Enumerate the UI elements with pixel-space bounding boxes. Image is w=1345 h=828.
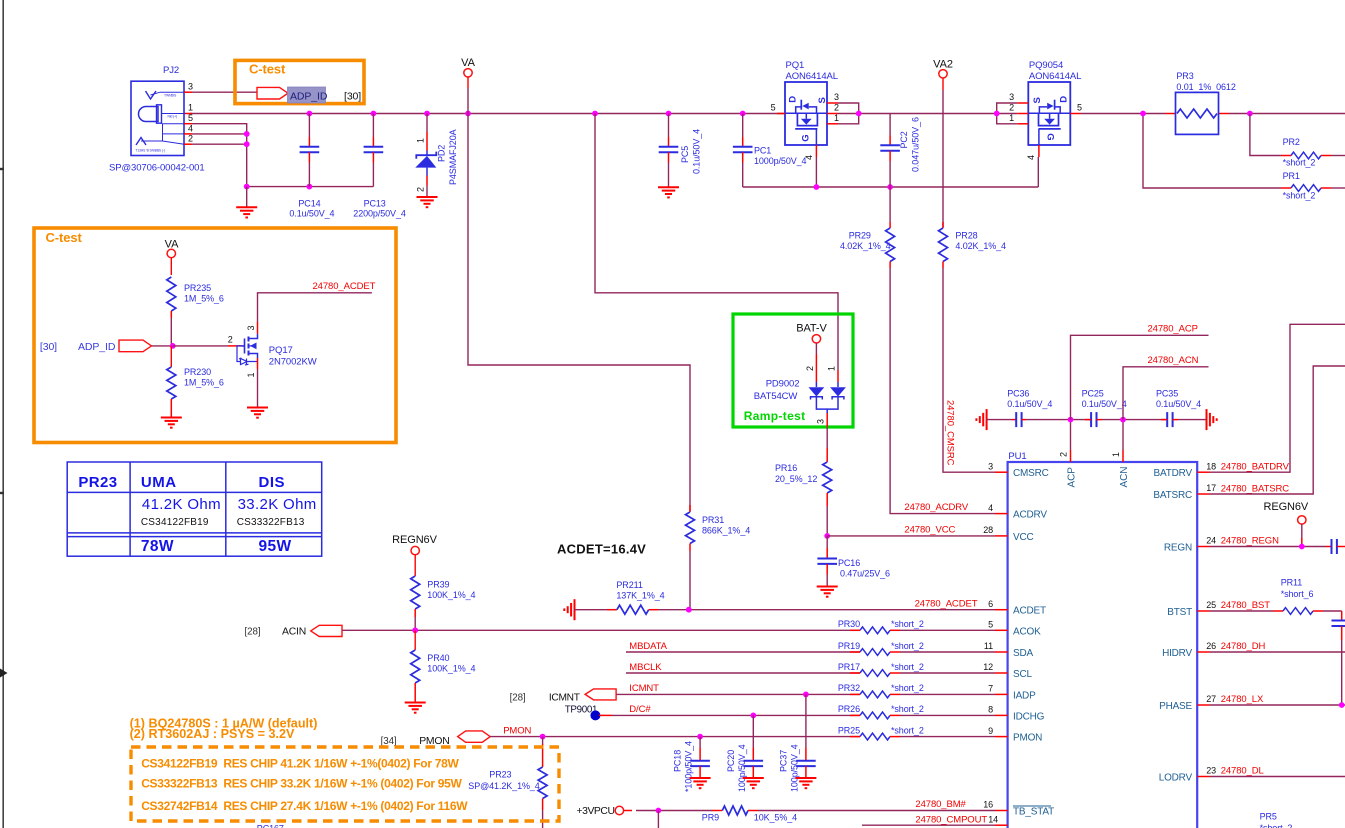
svg-text:ACDET: ACDET	[1013, 606, 1046, 617]
PU1 top pin 1 ACN	[1122, 450, 1124, 462]
svg-text:PR235: PR235	[184, 283, 211, 293]
svg-text:26: 26	[1206, 641, 1216, 651]
PQ9054 mosfet symbol mirrored	[1028, 112, 1071, 114]
svg-text:PR39: PR39	[427, 580, 449, 590]
ground below PR40	[405, 702, 426, 704]
svg-text:*short_2: *short_2	[1260, 823, 1293, 828]
svg-text:IADP: IADP	[1013, 690, 1036, 701]
svg-text:100p/50V_4: 100p/50V_4	[789, 744, 799, 792]
wire HIDRV row	[1210, 651, 1345, 653]
wire REGN to right cap	[1210, 546, 1327, 548]
svg-text:2: 2	[805, 366, 815, 371]
svg-text:*short_2: *short_2	[1283, 158, 1316, 168]
svg-text:PR16: PR16	[775, 463, 797, 473]
svg-text:PR17: PR17	[838, 662, 860, 672]
svg-text:PR31: PR31	[702, 515, 724, 525]
svg-text:100p/50V_4: 100p/50V_4	[737, 744, 747, 792]
svg-text:PR19: PR19	[838, 641, 860, 651]
svg-text:*short_2: *short_2	[891, 683, 924, 693]
svg-text:PC37: PC37	[778, 750, 788, 772]
svg-text:PC14: PC14	[298, 199, 320, 209]
svg-text:*short_2: *short_2	[891, 704, 924, 714]
PU1 pin 24 REGN	[1197, 546, 1209, 548]
svg-text:7: 7	[988, 684, 993, 694]
svg-text:PMON: PMON	[1013, 733, 1042, 744]
svg-text:3: 3	[834, 92, 839, 102]
svg-text:1: 1	[188, 103, 193, 113]
ground below PD2	[417, 196, 438, 198]
wire VCC to PU1 pin 28	[827, 535, 995, 537]
resistor PR30 short	[860, 627, 890, 634]
svg-text:1: 1	[1111, 452, 1121, 457]
svg-text:T13HS 'B SNIBBS (-): T13HS 'B SNIBBS (-)	[136, 149, 165, 153]
svg-text:VCC: VCC	[1013, 532, 1034, 543]
wire BATSRC up to edge	[1210, 366, 1345, 494]
table PR23 UMA DIS	[67, 462, 322, 556]
svg-text:PC20: PC20	[726, 750, 736, 772]
PJ2 tip contact symbol	[146, 91, 157, 99]
svg-text:PU1: PU1	[1008, 451, 1026, 462]
wire PR29 column down to ACDRV	[890, 268, 995, 514]
ground right of PC35	[1206, 409, 1208, 430]
junction DC/PC20	[750, 713, 756, 719]
svg-text:4.02K_1%_4: 4.02K_1%_4	[955, 241, 1006, 251]
svg-text:18: 18	[1206, 461, 1216, 471]
capacitor PC2	[889, 114, 891, 136]
svg-text:Nid (+): Nid (+)	[168, 115, 178, 119]
wire VA down to bus	[467, 77, 469, 88]
junction rail PC2	[887, 184, 893, 190]
capacitor PC1	[742, 114, 744, 138]
junction PQ9054 bracket	[994, 111, 1000, 117]
ground below PC5	[658, 186, 679, 188]
svg-text:[30]: [30]	[40, 341, 57, 353]
svg-text:6: 6	[988, 599, 993, 609]
PU1 pin 25 BTST	[1197, 610, 1209, 612]
svg-text:CS33322FB13 RES CHIP 33.2K 1/: CS33322FB13 RES CHIP 33.2K 1/16W +-1% (0…	[141, 777, 462, 791]
svg-text:PR23: PR23	[489, 770, 511, 780]
junction ADP_ID node	[170, 343, 176, 349]
PU1 top pin 2 ACP	[1070, 450, 1072, 462]
svg-text:AON6414AL: AON6414AL	[1029, 71, 1081, 82]
svg-text:S: S	[817, 97, 828, 103]
svg-text:REGN: REGN	[1164, 543, 1192, 554]
frame tick 2	[0, 492, 4, 494]
junction pin4/pin5 column	[244, 131, 250, 137]
wire MBDATA to pin11	[626, 651, 860, 653]
capacitor PC35	[1166, 412, 1168, 427]
svg-text:PR25: PR25	[838, 725, 860, 735]
C-test callout box left	[34, 228, 396, 443]
svg-text:BTST: BTST	[1167, 607, 1192, 618]
svg-text:PR230: PR230	[184, 367, 211, 377]
svg-text:PQ17: PQ17	[269, 345, 293, 356]
svg-text:24780_BATDRV: 24780_BATDRV	[1221, 462, 1290, 473]
port arrow ADP_ID left	[119, 340, 152, 352]
svg-text:IDCHG: IDCHG	[1013, 711, 1045, 722]
junction rail PQ1 pin4	[814, 184, 820, 190]
svg-text:PR40: PR40	[427, 653, 449, 663]
svg-text:ACDET=16.4V: ACDET=16.4V	[557, 542, 646, 557]
wire VA2 column down to PR28	[942, 114, 944, 228]
capacitor PC18	[699, 737, 701, 748]
svg-text:*short_6: *short_6	[1281, 589, 1314, 599]
svg-text:0.1u/50V_4: 0.1u/50V_4	[1082, 399, 1127, 409]
svg-text:G: G	[1045, 133, 1056, 140]
wire PR16 to VCC junction	[826, 506, 828, 536]
svg-text:PR2: PR2	[1283, 137, 1300, 147]
svg-text:S: S	[1032, 97, 1043, 103]
svg-text:4: 4	[804, 155, 814, 160]
wire ACN up and right	[1123, 367, 1209, 420]
svg-text:3: 3	[988, 461, 993, 471]
svg-text:PHASE: PHASE	[1159, 701, 1192, 712]
wire PC36 to ACP junction	[1026, 419, 1091, 421]
wire VA column down and over to PR31	[468, 114, 690, 512]
svg-text:C-test: C-test	[249, 62, 286, 77]
svg-text:100K_1%_4: 100K_1%_4	[427, 664, 475, 674]
ground left of PR211	[574, 599, 576, 620]
junction PMON/PR23	[540, 734, 546, 740]
svg-text:C-test: C-test	[46, 230, 83, 245]
capacitor PC13	[372, 114, 374, 138]
wire PR31 to ACDET line	[689, 551, 691, 610]
svg-text:0.1u/50V_4: 0.1u/50V_4	[692, 129, 702, 174]
svg-text:4.02K_1%_4: 4.02K_1%_4	[840, 241, 891, 251]
svg-text:CS33322FB13: CS33322FB13	[237, 517, 305, 528]
svg-text:UMA: UMA	[141, 474, 177, 491]
capacitor PC16	[826, 536, 828, 548]
svg-text:3: 3	[188, 82, 193, 92]
svg-text:5: 5	[771, 103, 776, 113]
svg-text:PC1: PC1	[754, 146, 771, 156]
svg-text:REGN6V: REGN6V	[392, 534, 437, 546]
wire VA bus PQ1 to PQ9054	[859, 113, 997, 115]
PJ2 sleeve contact symbol	[136, 138, 146, 146]
svg-text:PQ1: PQ1	[786, 60, 805, 71]
svg-text:24780_VCC: 24780_VCC	[904, 525, 955, 536]
svg-text:24780_CMSRC: 24780_CMSRC	[945, 400, 956, 466]
diode PD2 P4SMAFJ20A	[426, 114, 428, 133]
svg-text:PR1: PR1	[1283, 171, 1300, 181]
junction rail at PC14	[307, 184, 313, 190]
resistor PR28	[942, 222, 944, 228]
wire PMON to pin9	[490, 736, 860, 738]
PU1 pin 14 CMPOUT	[995, 824, 1008, 826]
svg-text:BAT54CW: BAT54CW	[754, 391, 798, 402]
wire gnd to PC36	[987, 419, 1012, 421]
svg-text:95W: 95W	[259, 538, 292, 555]
PU1 pin 18 BATDRV	[1197, 471, 1209, 473]
svg-text:16: 16	[983, 800, 993, 810]
svg-text:P4SMAFJ20A: P4SMAFJ20A	[448, 129, 458, 185]
svg-text:*short_2: *short_2	[891, 662, 924, 672]
PQ1 pin 5 stub	[777, 113, 785, 115]
svg-text:ACP: ACP	[1067, 467, 1078, 488]
wire REGN6V to PR39	[414, 555, 416, 576]
PQ1 pin 4 stub down	[815, 145, 817, 157]
svg-text:24780_DL: 24780_DL	[1221, 765, 1264, 776]
PU1 pin 26 HIDRV	[1197, 651, 1209, 653]
wire BTST row	[1210, 610, 1274, 612]
PQ1 pins 3 2 1 stubs and bracket	[827, 102, 838, 104]
ground below PC18	[690, 777, 711, 779]
PJ2 barrel contact symbol	[139, 107, 159, 122]
PU1 pin 4 ACDRV	[995, 513, 1008, 515]
svg-text:25: 25	[1206, 600, 1216, 610]
PQ17 body diode	[241, 359, 248, 365]
PU1 pin 9 PMON	[995, 736, 1008, 738]
junction ACP	[1068, 417, 1074, 423]
wire ICMNT to pin7	[616, 693, 860, 695]
svg-text:866K_1%_4: 866K_1%_4	[702, 526, 750, 536]
svg-text:1: 1	[827, 366, 837, 371]
svg-text:PJ2: PJ2	[163, 65, 179, 76]
wire PC25 to ACN junction	[1102, 419, 1167, 421]
svg-text:PR11: PR11	[1281, 578, 1303, 588]
svg-text:2N7002KW: 2N7002KW	[269, 357, 317, 368]
junction ICMNT/PC37	[803, 692, 809, 698]
wire REGN6V node to REGN	[1301, 524, 1303, 538]
svg-text:1000p/50V_4: 1000p/50V_4	[754, 156, 807, 166]
wire VA to PR235	[170, 258, 172, 275]
svg-text:23: 23	[1206, 766, 1216, 776]
svg-text:ICMNT: ICMNT	[629, 683, 659, 694]
svg-text:PR29: PR29	[849, 231, 871, 241]
PQ1 mosfet symbol	[785, 112, 828, 114]
svg-text:24780_ACP: 24780_ACP	[1148, 324, 1198, 335]
wire into pin 1	[837, 370, 839, 382]
svg-text:27: 27	[1206, 694, 1216, 704]
svg-text:0.01_1%_0612: 0.01_1%_0612	[1176, 82, 1235, 92]
svg-text:CMSRC: CMSRC	[1013, 468, 1049, 479]
PU1 pin 11 SDA	[995, 651, 1008, 653]
resistor PR16	[826, 448, 828, 462]
PQ9054 pin 4 down to rail	[1038, 145, 1040, 157]
resistor PR9	[712, 810, 722, 812]
port arrow PMON bidirectional	[458, 731, 491, 742]
transistor PQ9054 AON6414AL	[1028, 82, 1070, 145]
svg-text:(2) RT3602AJ : PSYS = 3.2V: (2) RT3602AJ : PSYS = 3.2V	[130, 727, 295, 741]
svg-text:137K_1%_4: 137K_1%_4	[616, 591, 664, 601]
svg-text:12: 12	[983, 662, 993, 672]
svg-text:PC25: PC25	[1082, 389, 1104, 399]
wire PR28 column down to CMSRC	[943, 268, 995, 472]
svg-text:AON6414AL: AON6414AL	[786, 71, 838, 82]
svg-text:VA2: VA2	[933, 59, 953, 71]
svg-text:ADP_ID: ADP_ID	[78, 341, 116, 353]
svg-text:11: 11	[984, 641, 993, 651]
wire gnd to PR211	[575, 609, 608, 611]
svg-text:3: 3	[816, 419, 826, 424]
junction ACDET/PR31	[686, 607, 692, 613]
wire PJ2 pin4	[184, 133, 192, 135]
svg-text:MBCLK: MBCLK	[629, 662, 662, 673]
PU1 pin 16 TB_STAT	[995, 810, 1008, 812]
svg-text:PR23: PR23	[78, 474, 117, 491]
PU1 pin 3 CMSRC	[995, 471, 1008, 473]
svg-text:PR28: PR28	[955, 231, 977, 241]
svg-text:+3VPCU: +3VPCU	[577, 806, 615, 817]
svg-text:4: 4	[188, 123, 193, 133]
svg-text:0.047u/50V_6: 0.047u/50V_6	[911, 117, 921, 172]
wire +3VPCU to pin16	[624, 810, 632, 812]
svg-text:VA: VA	[461, 57, 475, 69]
ground below PJ2 rail	[246, 187, 248, 208]
resistor PR29	[889, 187, 891, 222]
svg-text:PR32: PR32	[838, 683, 860, 693]
wire PJ2 pin3 to ADP_ID arrow	[184, 91, 192, 93]
junction PHASE bootstrap	[1339, 702, 1345, 708]
svg-text:*100p/50V_4: *100p/50V_4	[684, 741, 694, 792]
svg-text:1: 1	[416, 138, 426, 143]
capacitor PC25	[1090, 412, 1092, 427]
wire ACP up and right	[1071, 335, 1209, 419]
svg-text:0.47u/25V_6: 0.47u/25V_6	[840, 569, 890, 579]
svg-text:PC18: PC18	[673, 750, 683, 772]
wire PQ9054 pin5 to PR3	[1081, 113, 1166, 115]
frame tick 1	[0, 168, 4, 170]
svg-text:0.1u/50V_4: 0.1u/50V_4	[1007, 399, 1052, 409]
wire bus to PD9002 pin1	[595, 114, 838, 371]
junction ACN	[1120, 417, 1126, 423]
svg-text:2: 2	[1059, 452, 1069, 457]
Ramp-test callout box	[733, 314, 853, 427]
svg-text:3: 3	[1009, 92, 1014, 102]
svg-text:PC13: PC13	[364, 199, 386, 209]
ground below PC20	[743, 777, 764, 779]
svg-text:24780_BST: 24780_BST	[1221, 600, 1271, 611]
svg-text:PR9: PR9	[702, 813, 719, 823]
frame arrow marker	[0, 669, 8, 678]
wire lower rail PC1 to PQ9054 pin4	[743, 186, 1039, 188]
sheet border frame	[2, 0, 4, 828]
svg-text:24780_ACN: 24780_ACN	[1148, 355, 1199, 366]
ground below PC16	[817, 586, 838, 588]
PQ9054 pins 3 2 1 stubs and bracket	[1017, 102, 1028, 104]
svg-text:PC167: PC167	[257, 824, 284, 828]
svg-text:100K_1%_4: 100K_1%_4	[427, 590, 475, 600]
wire PMON down to PR23	[542, 737, 544, 744]
transistor PQ17 2N7002KW	[242, 339, 245, 354]
wire DC to pin8	[599, 714, 612, 716]
svg-text:SCL: SCL	[1013, 669, 1032, 680]
svg-text:BATSRC: BATSRC	[1153, 490, 1192, 501]
svg-text:1M_5%_6: 1M_5%_6	[184, 294, 224, 304]
junction pin2/column	[244, 141, 250, 147]
svg-text:PQ9054: PQ9054	[1029, 60, 1063, 71]
svg-text:D: D	[1059, 96, 1070, 103]
svg-text:5: 5	[988, 620, 993, 630]
svg-text:24780_REGN: 24780_REGN	[1221, 536, 1279, 547]
svg-text:PR5: PR5	[1260, 812, 1277, 822]
svg-text:SP@30706-00042-001: SP@30706-00042-001	[109, 163, 205, 174]
svg-text:1: 1	[246, 373, 256, 378]
resistor PR211	[607, 609, 617, 611]
svg-text:28: 28	[983, 525, 993, 535]
junction +3VPCU column	[656, 808, 662, 814]
junction after PR3	[1247, 111, 1253, 117]
svg-text:20_5%_12: 20_5%_12	[775, 474, 817, 484]
capacitor PC20	[752, 715, 754, 747]
PU1 pin 7 IADP	[995, 693, 1008, 695]
svg-text:TB_STAT: TB_STAT	[1013, 807, 1054, 818]
svg-text:78W: 78W	[141, 538, 174, 555]
resistor PR230	[170, 346, 172, 367]
svg-text:24780_BM#: 24780_BM#	[915, 799, 966, 810]
IC PU1 BQ24780S outline	[1008, 462, 1198, 828]
wire BATDRV up to edge	[1210, 324, 1345, 472]
wire PHASE row	[1210, 704, 1345, 706]
transistor PQ1 AON6414AL	[785, 82, 827, 145]
wire PJ2 pin5 down	[184, 123, 192, 125]
svg-text:10K_5%_4: 10K_5%_4	[754, 813, 797, 823]
svg-text:24780_ACDET: 24780_ACDET	[313, 281, 376, 292]
svg-text:14: 14	[988, 814, 998, 824]
C-test callout box top	[235, 60, 364, 103]
ADP_ID net label highlighted	[288, 87, 326, 103]
svg-text:G: G	[801, 135, 812, 142]
resistor PR2 short	[1291, 152, 1321, 159]
svg-text:5: 5	[188, 113, 193, 123]
ground below PC37	[795, 777, 816, 779]
svg-text:17: 17	[1206, 483, 1216, 493]
svg-text:CS34122FB19 RES CHIP 41.2K 1/: CS34122FB19 RES CHIP 41.2K 1/16W +-1%(04…	[141, 757, 459, 771]
svg-text:1: 1	[834, 113, 839, 123]
svg-text:24780_CMPOUT: 24780_CMPOUT	[915, 815, 987, 826]
resistor PR3 current sense	[1176, 92, 1219, 134]
svg-text:3: 3	[246, 326, 256, 331]
svg-text:24780_ACDET: 24780_ACDET	[915, 599, 978, 610]
svg-text:PR26: PR26	[838, 704, 860, 714]
junction PQ1 bracket	[856, 111, 862, 117]
svg-text:8: 8	[988, 705, 993, 715]
svg-text:BATDRV: BATDRV	[1154, 468, 1193, 479]
wire CMPOUT row	[862, 824, 995, 826]
svg-text:0.1u/50V_4: 0.1u/50V_4	[289, 209, 334, 219]
svg-text:9: 9	[988, 726, 993, 736]
svg-text:2: 2	[188, 134, 193, 144]
svg-text:HIDRV: HIDRV	[1162, 648, 1192, 659]
svg-text:DIS: DIS	[259, 474, 286, 491]
svg-text:TWN5IS: TWN5IS	[164, 94, 177, 98]
svg-text:PC35: PC35	[1156, 389, 1178, 399]
ground below PQ17	[247, 407, 268, 409]
junction REGN	[1299, 544, 1305, 550]
svg-text:24780_ACDRV: 24780_ACDRV	[904, 502, 968, 513]
port arrow ACIN	[311, 625, 342, 636]
bootstrap capacitor right edge	[1341, 611, 1343, 621]
svg-text:REGN6V: REGN6V	[1264, 501, 1309, 513]
wire PJ2 pin2	[184, 143, 192, 145]
PD9002 pin3 stub down	[826, 413, 828, 427]
svg-text:PMON: PMON	[503, 726, 531, 737]
svg-text:33.2K Ohm: 33.2K Ohm	[238, 496, 317, 513]
svg-text:[28]: [28]	[510, 693, 526, 704]
resistor PR31	[689, 505, 691, 512]
wire LODRV row	[1210, 776, 1345, 778]
svg-text:PC5: PC5	[680, 146, 690, 163]
wire PR39 to ACIN node	[414, 617, 416, 630]
junction VCC	[824, 533, 830, 539]
svg-text:5: 5	[1077, 103, 1082, 113]
svg-text:2: 2	[228, 335, 233, 345]
svg-text:Ramp-test: Ramp-test	[744, 409, 806, 423]
capacitor PC36	[1012, 419, 1016, 421]
svg-text:4: 4	[1026, 155, 1036, 160]
svg-text:2: 2	[1009, 103, 1014, 113]
junction at 1143	[1140, 111, 1146, 117]
